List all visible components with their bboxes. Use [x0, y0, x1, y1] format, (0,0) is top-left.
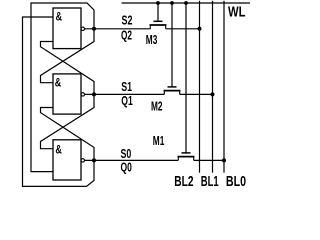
junction S0-BL0 [222, 158, 226, 162]
svg-text:&: & [55, 77, 62, 89]
junction S1-BL1 [211, 92, 215, 96]
wire S2 from M3 to BL2 [166, 28, 200, 30]
junction WL gate M2 [170, 1, 174, 5]
wire feedback Q0 to U1 input (left outer loop) [23, 17, 95, 186]
inverter bubble U1 output [81, 27, 84, 30]
junction S2-BL2 [198, 27, 202, 31]
svg-text:S1: S1 [121, 79, 132, 94]
wire S1 from M2 to BL1 [180, 93, 213, 95]
wire Q1 to U3 input (cross X lower) [41, 94, 95, 148]
svg-text:Q1: Q1 [121, 93, 133, 108]
transistor M2 gate line [171, 3, 173, 87]
svg-text:Q0: Q0 [121, 160, 132, 175]
wire S1/Q1 from U2 output to transistor M2 [84, 93, 164, 95]
wire Q1 to U1 input (cross X upper) [41, 42, 95, 95]
nand gate U3 box [53, 140, 81, 180]
wire feedback Q2 to U3 input (second left loop over top) [31, 3, 94, 172]
junction WL gate M1 [184, 1, 188, 5]
wire Q2 to U2 input (cross X upper) [41, 29, 95, 83]
svg-text:Q2: Q2 [121, 27, 132, 42]
nand gate U1 box [53, 8, 81, 49]
svg-text:M3: M3 [146, 32, 158, 47]
transistor M3 gate line [157, 3, 159, 21]
svg-text:WL: WL [228, 5, 246, 21]
wire S2/Q2 from U1 output to transistor M3 [84, 28, 150, 30]
junction node Q2 [92, 27, 96, 31]
wire Q0 to U2 input (cross X lower) [41, 108, 95, 161]
svg-text:S2: S2 [122, 13, 133, 28]
svg-text:&: & [55, 145, 62, 157]
svg-text:M2: M2 [151, 99, 163, 114]
nand gate U2 box [53, 74, 81, 114]
svg-text:BL0: BL0 [226, 174, 246, 190]
word line WL horizontal [122, 2, 251, 4]
svg-text:BL2: BL2 [174, 174, 193, 190]
transistor M3 channel and stubs [150, 21, 167, 29]
bit line BL0 [223, 1, 225, 173]
inverter bubble U2 output [81, 93, 84, 96]
svg-text:&: & [56, 12, 63, 24]
junction WL gate M3 [156, 1, 160, 5]
bit line BL1 [212, 1, 214, 173]
junction node Q0 [92, 158, 96, 162]
transistor M2 channel and stubs [164, 87, 181, 95]
bit line BL2 [199, 1, 201, 173]
transistor M1 gate line [185, 3, 187, 153]
wire S0 from M1 to BL0 [194, 159, 224, 161]
svg-text:M1: M1 [153, 133, 165, 148]
wire S0/Q0 from U3 output to transistor M1 [84, 159, 178, 161]
svg-text:BL1: BL1 [201, 174, 219, 190]
transistor M1 channel and stubs [178, 153, 195, 161]
inverter bubble U3 output [81, 159, 84, 162]
junction node Q1 [92, 92, 96, 96]
